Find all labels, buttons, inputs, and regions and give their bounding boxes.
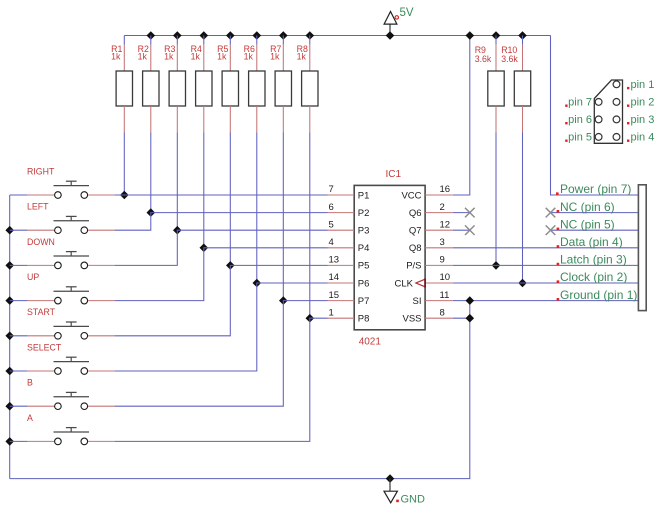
svg-text:10: 10 — [440, 272, 451, 283]
legend hole pin 4 — [613, 134, 620, 141]
wire bottom ground run — [10, 301, 470, 479]
wire LEFT to P2 — [115, 213, 328, 231]
junction R4 / P4 row — [200, 244, 209, 253]
pin VSS (pin 8) lead — [425, 317, 453, 319]
clock triangle on CLK pin — [416, 279, 425, 287]
svg-text:GND: GND — [401, 494, 426, 506]
pin P3 (pin 5) lead — [328, 229, 355, 231]
legend hole pin 2 — [613, 99, 620, 106]
junction GND pin / bottom run — [386, 474, 395, 483]
pin P6 (pin 14) lead — [328, 282, 355, 284]
legend hole pin 3 — [613, 116, 620, 123]
pushbutton S2 LEFT — [28, 216, 115, 233]
junction SI / ground column — [466, 296, 475, 305]
svg-text:Power (pin 7): Power (pin 7) — [560, 182, 631, 196]
resistor R8 1k — [302, 45, 318, 133]
wire 5V bus to R1 top — [123, 36, 125, 45]
wire R3 bottom to row 3 — [176, 133, 178, 231]
svg-text:4: 4 — [329, 237, 334, 248]
junction 5V bus at x=309.8 — [306, 31, 315, 40]
wire R9 bottom to row — [495, 133, 497, 266]
svg-text:1k: 1k — [244, 51, 254, 61]
no-connect X on Q6 pin — [453, 212, 470, 214]
svg-text:SELECT: SELECT — [27, 342, 62, 352]
wire RIGHT to P1 — [115, 194, 328, 196]
svg-text:P5: P5 — [358, 261, 370, 272]
junction R3 / P3 row — [173, 226, 182, 235]
origin mark Latch (pin 3) — [557, 263, 560, 266]
svg-text:pin 1: pin 1 — [631, 79, 655, 91]
junction ground rail / button B — [5, 402, 14, 411]
wire R7 bottom to row 7 — [282, 133, 284, 301]
wire START to P5 — [115, 265, 328, 335]
wire 5V bus to R7 top — [282, 36, 284, 45]
wire 5V drop to VCC pin — [453, 36, 470, 196]
svg-text:P1: P1 — [358, 190, 370, 201]
wire R10 bottom to row — [522, 133, 524, 284]
legend hole pin 6 — [595, 116, 602, 123]
wire NC (pin 5) stub — [551, 229, 639, 231]
pushbutton S8 A — [28, 428, 115, 445]
pushbutton S5 START — [28, 322, 115, 339]
junction ground rail / button UP — [5, 296, 14, 305]
pin P8 (pin 1) lead — [328, 317, 355, 319]
resistor R6 1k — [249, 45, 265, 133]
svg-text:14: 14 — [329, 272, 340, 283]
svg-text:1k: 1k — [138, 51, 148, 61]
svg-text:VSS: VSS — [402, 314, 421, 325]
wire NC (pin 6) stub — [551, 212, 639, 214]
supply +5V symbol — [384, 12, 398, 36]
origin mark Data (pin 4) — [557, 245, 560, 248]
junction 5V bus / R9 — [492, 31, 501, 40]
pushbutton S1 RIGHT — [28, 181, 115, 198]
pushbutton S6 SELECT — [28, 357, 115, 374]
wire Ground net SI to connector — [453, 300, 639, 302]
wire R1 bottom to row 1 — [123, 133, 125, 196]
wire 5V bus right drop to Power pin — [551, 36, 639, 196]
wire ground rail to button RIGHT — [10, 194, 28, 196]
svg-text:P/S: P/S — [406, 261, 421, 272]
resistor R4 1k — [196, 45, 212, 133]
wire ground rail to button B — [10, 405, 28, 407]
wire 5V bus to R3 top — [176, 36, 178, 45]
svg-text:Q8: Q8 — [409, 243, 422, 254]
wire Data net Q8 to connector — [453, 247, 639, 249]
wire R5 bottom to row 5 — [229, 133, 231, 266]
junction R6 / P6 row — [253, 279, 262, 288]
junction 5V bus at x=177.3 — [173, 31, 182, 40]
junction R8 / P8 row — [306, 314, 315, 323]
pushbutton S7 B — [28, 392, 115, 409]
wire Latch net P/S to connector — [453, 264, 639, 266]
svg-text:1k: 1k — [111, 51, 121, 61]
wire B to P7 — [115, 301, 328, 407]
junction 5V bus at x=230.3 — [226, 31, 235, 40]
ground GND symbol — [384, 479, 397, 503]
wire 5V bus horizontal — [124, 35, 550, 37]
svg-text:pin 5: pin 5 — [568, 131, 592, 143]
svg-text:pin 2: pin 2 — [631, 96, 655, 108]
wire 5V bus to R2 top — [150, 36, 152, 45]
pin P2 (pin 6) lead — [328, 212, 355, 214]
wire R4 bottom to row 4 — [203, 133, 205, 248]
svg-text:pin 4: pin 4 — [631, 131, 655, 143]
wire 5V bus to R10 top — [522, 36, 524, 45]
svg-text:3.6k: 3.6k — [475, 54, 492, 64]
svg-text:NC (pin 5): NC (pin 5) — [560, 217, 615, 231]
wire VSS to ground column — [453, 317, 470, 319]
svg-text:1k: 1k — [191, 51, 201, 61]
wire ground rail to button A — [10, 440, 28, 442]
junction 5V bus at x=283.3 — [279, 31, 288, 40]
svg-text:P4: P4 — [358, 243, 370, 254]
svg-text:13: 13 — [329, 255, 340, 266]
wire left ground rail vertical — [9, 195, 11, 479]
wire ground rail to button START — [10, 335, 28, 337]
junction 5V bus at x=203.8 — [200, 31, 209, 40]
svg-text:1k: 1k — [270, 51, 280, 61]
junction R1 / P1 row — [120, 191, 129, 200]
legend hole pin 1 — [613, 81, 620, 88]
wire ground rail to button UP — [10, 300, 28, 302]
connector face legend outline — [594, 80, 622, 143]
wire R8 bottom to row 8 — [309, 133, 311, 319]
pin Q6 (pin 2) lead — [425, 212, 453, 214]
svg-text:VCC: VCC — [401, 190, 421, 201]
junction R9 pull-up — [492, 261, 501, 270]
svg-text:P6: P6 — [358, 278, 370, 289]
svg-text:pin 7: pin 7 — [568, 96, 592, 108]
svg-text:6: 6 — [329, 202, 334, 213]
pin P7 (pin 15) lead — [328, 300, 355, 302]
pushbutton S4 UP — [28, 287, 115, 304]
resistor R1 1k — [116, 45, 132, 133]
resistor R2 1k — [143, 45, 159, 133]
svg-text:DOWN: DOWN — [27, 237, 55, 247]
svg-text:8: 8 — [440, 307, 445, 318]
svg-text:IC1: IC1 — [386, 169, 402, 180]
svg-text:CLK: CLK — [395, 278, 414, 289]
svg-text:5: 5 — [329, 219, 334, 230]
pushbutton S3 DOWN — [28, 252, 115, 269]
wire ground rail to button LEFT — [10, 229, 28, 231]
resistor R10 3.6k — [514, 45, 530, 133]
svg-text:NC (pin 6): NC (pin 6) — [560, 200, 615, 214]
wire 5V bus to R4 top — [203, 36, 205, 45]
wire 5V bus to R5 top — [229, 36, 231, 45]
junction VSS / ground column — [466, 314, 475, 323]
origin mark Clock (pin 2) — [557, 280, 560, 283]
pin VCC (pin 16) lead — [425, 194, 453, 196]
pin P1 (pin 7) lead — [328, 194, 355, 196]
svg-text:1k: 1k — [217, 51, 227, 61]
junction R10 pull-up — [518, 279, 527, 288]
svg-text:P3: P3 — [358, 226, 370, 237]
wire ground rail to button SELECT — [10, 370, 28, 372]
junction R2 / P2 row — [147, 208, 156, 217]
svg-text:A: A — [27, 413, 33, 423]
pin P5 (pin 13) lead — [328, 264, 355, 266]
svg-text:Data (pin 4): Data (pin 4) — [560, 235, 623, 249]
pin CLK (pin 10) lead — [425, 282, 453, 284]
junction ground rail / button LEFT — [5, 226, 14, 235]
svg-text:P8: P8 — [358, 314, 370, 325]
svg-text:4021: 4021 — [359, 337, 382, 348]
svg-text:16: 16 — [440, 184, 451, 195]
resistor R5 1k — [222, 45, 238, 133]
svg-text:1: 1 — [329, 307, 334, 318]
junction ground rail / button A — [5, 437, 14, 446]
svg-text:3: 3 — [440, 237, 445, 248]
svg-text:12: 12 — [440, 219, 451, 230]
junction 5V bus / 5V pin — [386, 31, 395, 40]
wire UP to P4 — [115, 248, 328, 301]
svg-text:3.6k: 3.6k — [501, 54, 518, 64]
wire 5V bus to R9 top — [495, 36, 497, 45]
junction R7 / P7 row — [279, 296, 288, 305]
pin P/S (pin 9) lead — [425, 264, 453, 266]
pin P4 (pin 4) lead — [328, 247, 355, 249]
resistor R7 1k — [275, 45, 291, 133]
origin mark Power (pin 7) — [556, 192, 559, 195]
junction 5V bus / R10 — [518, 31, 527, 40]
svg-text:2: 2 — [440, 202, 445, 213]
svg-text:P2: P2 — [358, 208, 370, 219]
svg-text:RIGHT: RIGHT — [27, 166, 55, 176]
wire R2 bottom to row 2 — [150, 133, 152, 213]
origin mark Ground (pin 1) — [557, 298, 560, 301]
svg-text:Q7: Q7 — [409, 226, 422, 237]
svg-text:Q6: Q6 — [409, 208, 422, 219]
op IC1 4021 body — [354, 185, 425, 329]
junction 5V bus at x=150.8 — [147, 31, 156, 40]
svg-text:LEFT: LEFT — [27, 202, 49, 212]
junction 5V bus / VCC drop — [466, 31, 475, 40]
wire DOWN to P3 — [115, 230, 328, 265]
legend hole pin 5 — [595, 134, 602, 141]
svg-text:Ground (pin 1): Ground (pin 1) — [560, 288, 637, 302]
svg-text:P7: P7 — [358, 296, 370, 307]
legend hole pin 7 — [595, 99, 602, 106]
pin SI (pin 11) lead — [425, 300, 453, 302]
svg-text:5V: 5V — [400, 7, 414, 19]
resistor R9 3.6k — [488, 45, 504, 133]
svg-text:B: B — [27, 378, 33, 388]
svg-text:1k: 1k — [164, 51, 174, 61]
resistor R3 1k — [169, 45, 185, 133]
wire Clock net CLK to connector — [453, 282, 639, 284]
svg-text:11: 11 — [440, 290, 450, 301]
svg-text:Clock (pin 2): Clock (pin 2) — [560, 270, 627, 284]
junction R5 / P5 row — [226, 261, 235, 270]
origin mark NC (pin 5) — [557, 228, 560, 231]
wire 5V bus to R6 top — [256, 36, 258, 45]
pin Q7 (pin 12) lead — [425, 229, 453, 231]
wire SELECT to P6 — [115, 283, 328, 371]
wire ground rail to button DOWN — [10, 264, 28, 266]
svg-text:7: 7 — [329, 184, 334, 195]
svg-text:START: START — [27, 307, 56, 317]
wire A to P8 — [115, 318, 328, 441]
junction ground rail / button SELECT — [5, 367, 14, 376]
svg-text:pin 3: pin 3 — [631, 114, 655, 126]
svg-text:UP: UP — [27, 272, 39, 282]
no-connect X on Q7 pin — [453, 229, 470, 231]
pin Q8 (pin 3) lead — [425, 247, 453, 249]
svg-text:1k: 1k — [297, 51, 307, 61]
wire R6 bottom to row 6 — [256, 133, 258, 284]
wire 5V bus to R8 top — [309, 36, 311, 45]
origin mark NC (pin 6) — [557, 210, 560, 213]
junction 5V bus at x=256.8 — [253, 31, 262, 40]
svg-text:15: 15 — [329, 290, 340, 301]
junction ground rail / button START — [5, 332, 14, 341]
svg-text:9: 9 — [440, 255, 445, 266]
connector SV1 body — [638, 185, 646, 311]
svg-text:pin 6: pin 6 — [568, 114, 592, 126]
svg-text:Latch (pin 3): Latch (pin 3) — [560, 253, 627, 267]
svg-text:SI: SI — [413, 296, 422, 307]
junction ground rail / button DOWN — [5, 261, 14, 270]
